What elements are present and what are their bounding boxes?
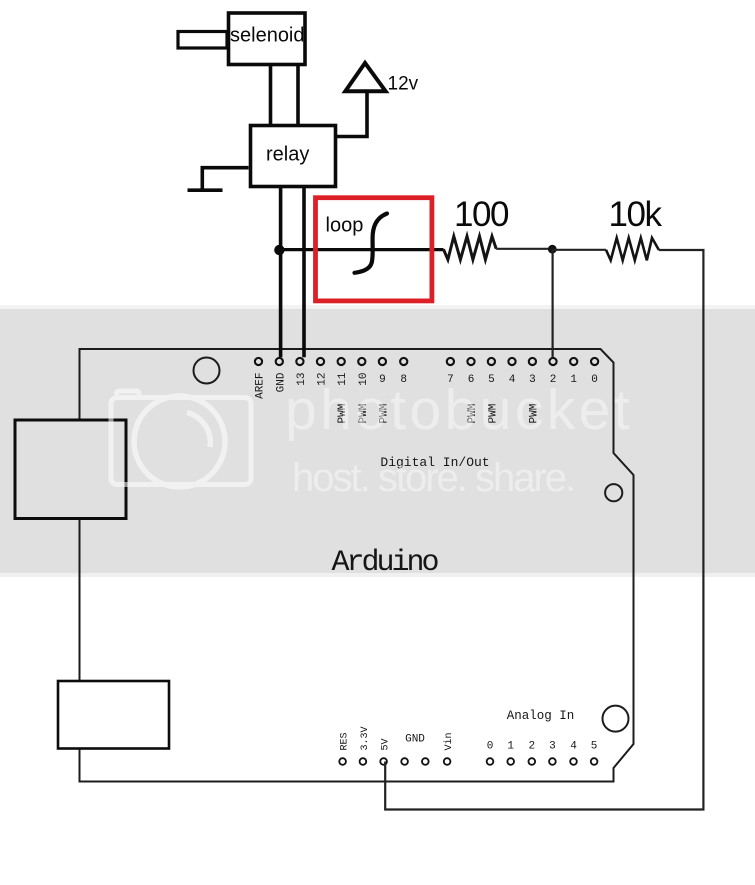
digital header pins: [255, 358, 598, 365]
wire resistor100 to node: [496, 248, 552, 250]
photobucket watermark: [111, 391, 251, 487]
USB connector: [15, 420, 126, 519]
loop squiggle: [355, 214, 388, 273]
svg-text:5V: 5V: [381, 738, 392, 750]
svg-text:Vin: Vin: [443, 732, 455, 750]
wire 10k around board to 5V pin: [385, 250, 703, 810]
svg-text:10k: 10k: [609, 195, 663, 234]
svg-text:0: 0: [487, 741, 494, 753]
svg-text:5: 5: [591, 741, 598, 753]
wire selenoid to relay (left): [269, 65, 273, 125]
analog header pins: [339, 758, 597, 765]
ground symbol: [188, 168, 249, 191]
watermark band: [0, 305, 755, 309]
selenoid connector tab: [178, 32, 227, 49]
arduino board outline: [80, 349, 634, 782]
svg-text:2: 2: [528, 741, 535, 753]
camera lens: [134, 396, 225, 487]
svg-text:loop: loop: [326, 215, 364, 237]
wire selenoid to relay (right): [296, 65, 300, 125]
wire relay to GND pin: [279, 188, 283, 357]
svg-text:12v: 12v: [388, 74, 419, 95]
svg-text:3: 3: [549, 741, 556, 753]
svg-text:selenoid: selenoid: [230, 25, 305, 47]
svg-text:Arduino: Arduino: [331, 546, 438, 580]
svg-text:photobucket: photobucket: [285, 378, 633, 442]
mounting hole bottom-right: [603, 706, 629, 732]
svg-text:host. store. share.: host. store. share.: [292, 456, 574, 500]
svg-text:100: 100: [454, 195, 509, 234]
svg-text:relay: relay: [266, 144, 309, 166]
wire node to resistor 10k: [552, 249, 606, 251]
junction dot at relay wire: [274, 245, 284, 255]
mounting hole right-mid: [605, 484, 622, 501]
wire relay to pin 13: [302, 188, 306, 357]
loop box (red): [316, 198, 432, 301]
svg-text:GND: GND: [405, 734, 425, 746]
svg-text:4: 4: [570, 741, 577, 753]
camera lens highlight arc: [187, 413, 210, 448]
loop sense wire horizontal: [281, 248, 444, 251]
svg-text:Analog In: Analog In: [507, 709, 575, 723]
mounting hole top-left: [194, 358, 220, 384]
wire node to pin 2: [551, 249, 553, 357]
svg-text:AREF: AREF: [255, 373, 267, 399]
analog header pin labels: [340, 726, 598, 752]
relay box: [251, 126, 336, 187]
resistor 100: [444, 236, 497, 259]
svg-text:1: 1: [507, 741, 514, 753]
resistor 10k: [606, 238, 659, 260]
power jack: [58, 681, 169, 749]
svg-text:RES: RES: [340, 732, 351, 750]
svg-text:3.3V: 3.3V: [360, 726, 371, 750]
12v supply triangle: [345, 63, 385, 91]
camera body: [111, 398, 251, 485]
selenoid box: [229, 13, 306, 65]
camera viewfinder bump: [117, 391, 140, 395]
digital header pin labels: [255, 372, 598, 423]
wire 12v to relay: [337, 93, 367, 137]
node junction dot: [548, 245, 557, 254]
